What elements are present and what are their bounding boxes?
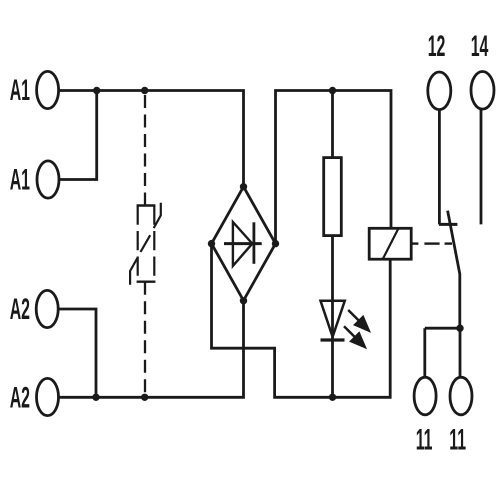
svg-text:A1: A1 — [10, 74, 30, 108]
svg-text:A2: A2 — [10, 381, 30, 415]
svg-text:12: 12 — [428, 30, 446, 64]
svg-text:11: 11 — [416, 423, 433, 457]
svg-text:A1: A1 — [10, 163, 30, 197]
svg-text:A2: A2 — [10, 293, 30, 327]
svg-text:11: 11 — [449, 423, 466, 457]
svg-text:14: 14 — [471, 30, 489, 64]
